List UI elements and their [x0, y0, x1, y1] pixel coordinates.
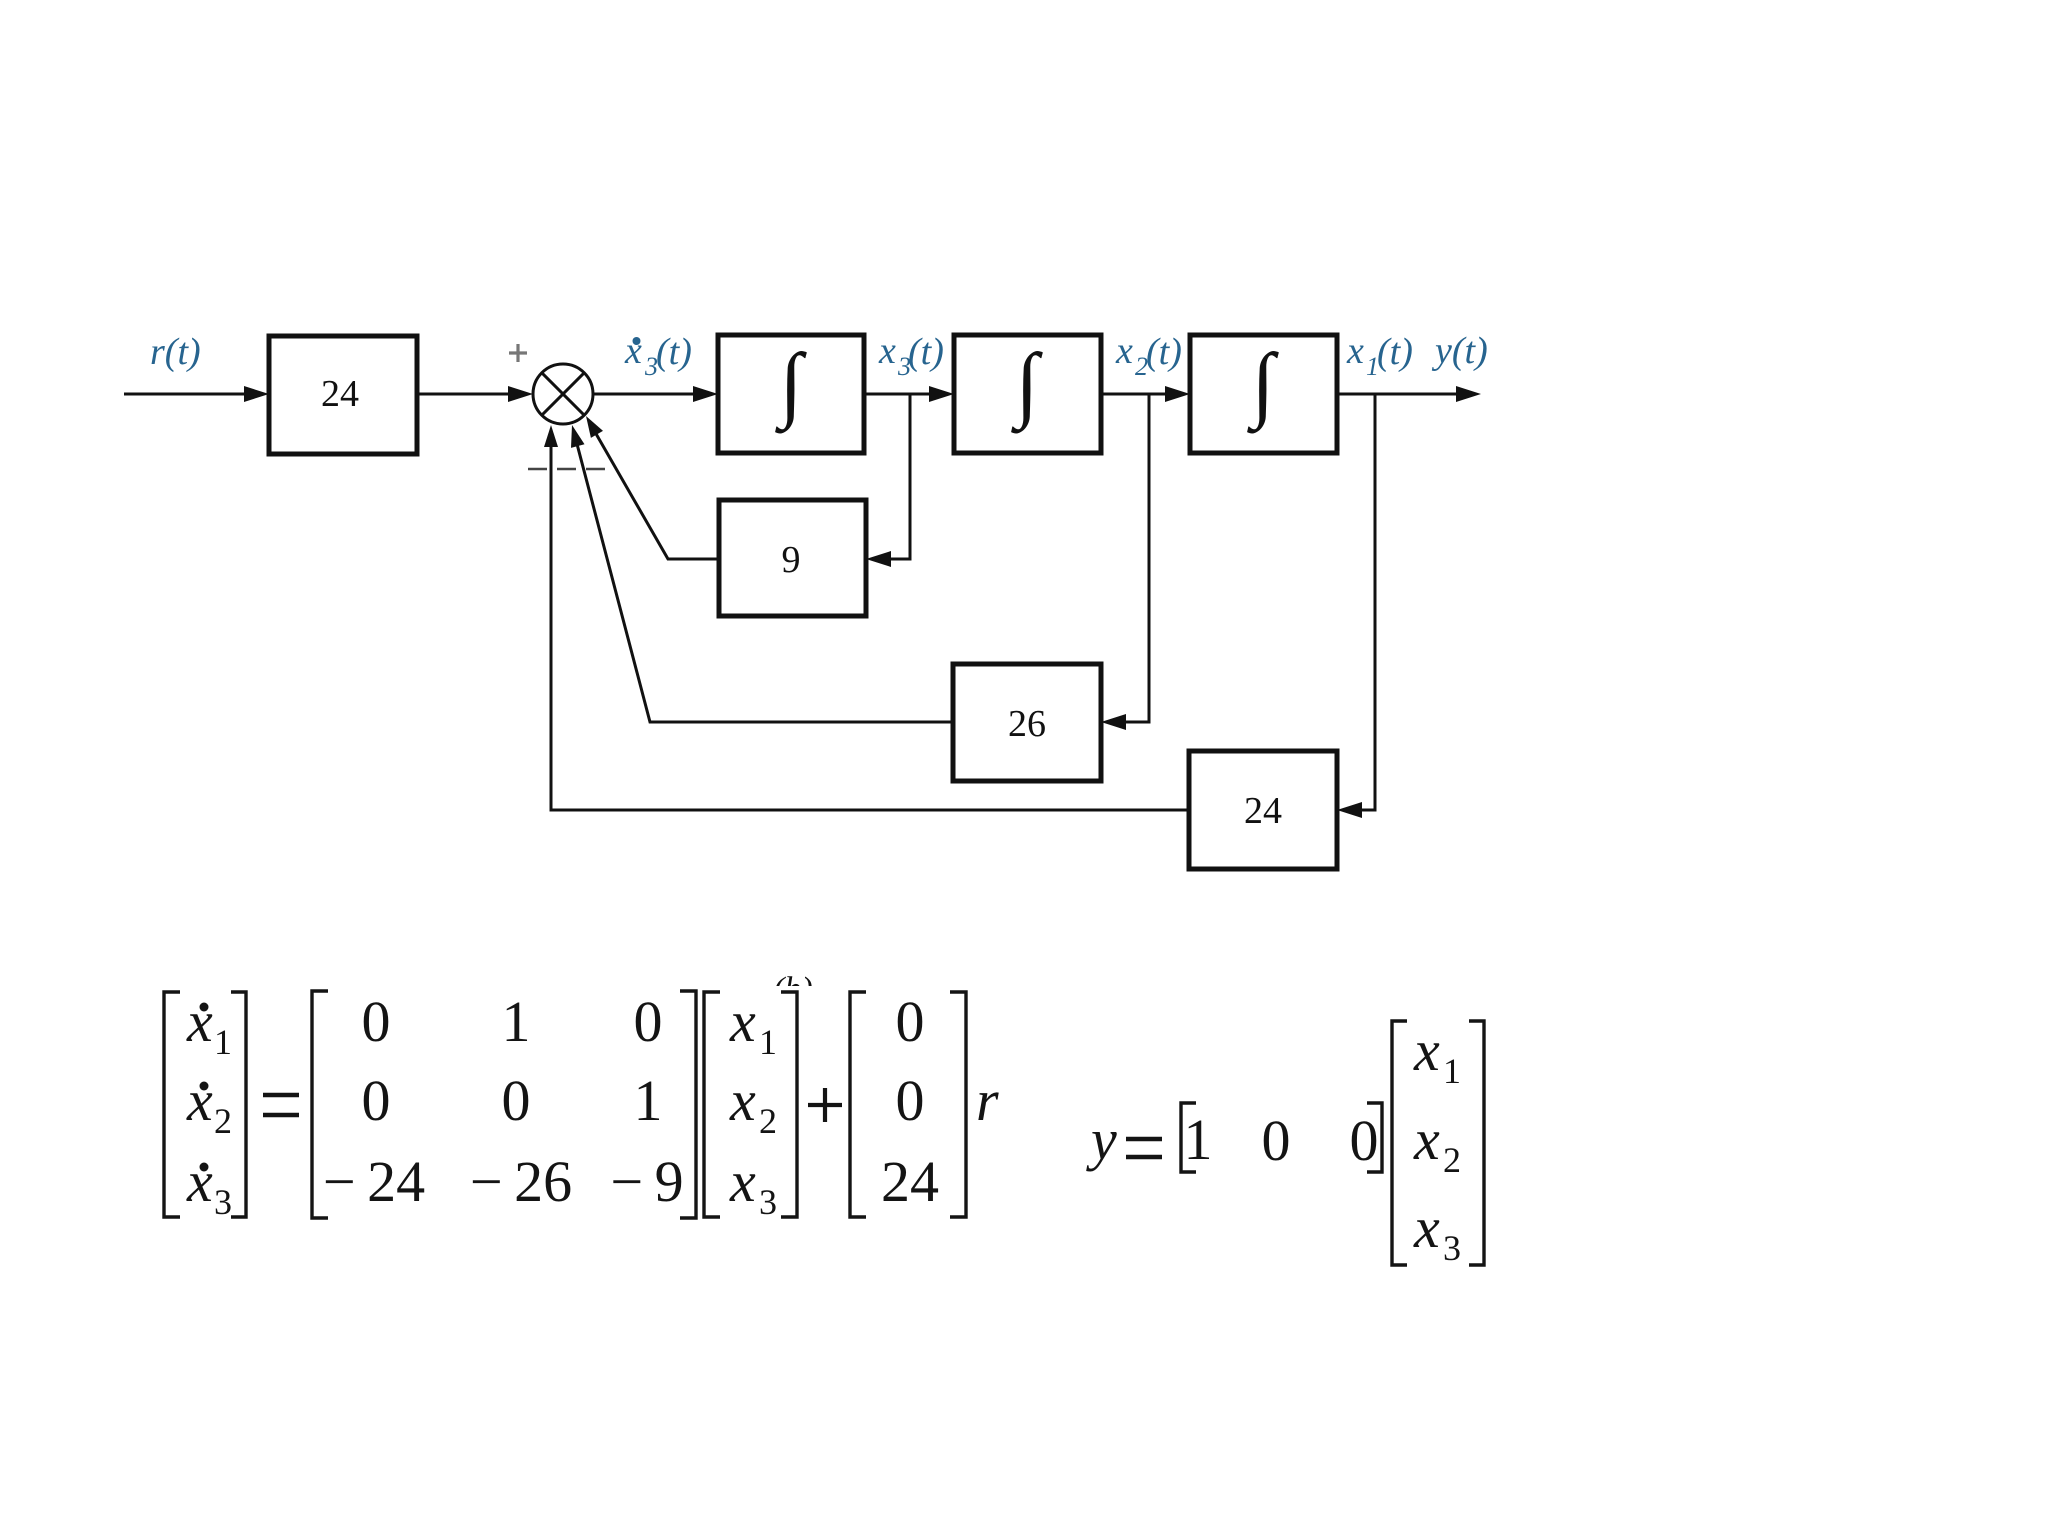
- svg-text:0: 0: [634, 989, 663, 1054]
- feedback block 26: [953, 664, 1101, 781]
- svg-text:24: 24: [881, 1149, 939, 1214]
- output equation y =: [1086, 1107, 1117, 1172]
- integrator block 2: [954, 335, 1101, 453]
- svg-text:x: x: [1413, 1018, 1440, 1083]
- wire integrator1 to integrator2: [864, 393, 931, 396]
- arrowhead into block26: [1101, 714, 1126, 730]
- svg-text:0: 0: [1350, 1108, 1379, 1173]
- svg-text:0: 0: [896, 989, 925, 1054]
- svg-text:24: 24: [1244, 790, 1282, 832]
- svg-text:x: x: [1413, 1107, 1440, 1172]
- wire takeoff x1 down to block24b: [1360, 394, 1375, 810]
- wire integrator2 to integrator3: [1101, 393, 1167, 396]
- svg-text:2: 2: [759, 1101, 777, 1141]
- A matrix entries: [323, 989, 684, 1214]
- svg-text:x: x: [878, 330, 896, 372]
- label x2(t): [1115, 330, 1182, 381]
- wire integrator3 to output y(t): [1337, 393, 1458, 396]
- svg-text:9: 9: [782, 539, 801, 581]
- arrowhead up into summer from block24b: [544, 425, 558, 447]
- wire takeoff x2 down to block26: [1124, 394, 1149, 722]
- arrowhead into block9: [866, 551, 891, 567]
- label x3(t): [878, 330, 944, 381]
- arrowhead into integrator3: [1165, 386, 1190, 402]
- integrator block 3: [1190, 335, 1337, 453]
- plus sign in equation: [808, 1088, 842, 1122]
- plus sign at summer: [509, 344, 527, 362]
- svg-text:(t): (t): [908, 331, 944, 373]
- wire block9 output to summer: [595, 432, 719, 559]
- svg-text:1: 1: [1443, 1051, 1461, 1091]
- svg-text:1: 1: [214, 1022, 232, 1062]
- svg-text:(t): (t): [1377, 331, 1413, 373]
- C row vector brackets: [1181, 1103, 1382, 1172]
- svg-text:2: 2: [1443, 1140, 1461, 1180]
- arrowhead output y(t): [1456, 386, 1481, 402]
- arrowhead into block24b: [1337, 802, 1362, 818]
- svg-text:− 9: − 9: [610, 1149, 683, 1214]
- x vector (output equation) entries: [1413, 1018, 1461, 1268]
- state equation: xdot vector: [164, 992, 246, 1217]
- x state vector entries: [729, 989, 777, 1222]
- svg-text:r(t): r(t): [150, 331, 201, 373]
- wire block24b output to summer: [551, 446, 1189, 810]
- arrowhead into summer left: [508, 386, 533, 402]
- svg-text:0: 0: [502, 1068, 531, 1133]
- svg-text:0: 0: [1262, 1108, 1291, 1173]
- wire summer to integrator1: [593, 393, 695, 396]
- x state vector brackets: [704, 992, 797, 1217]
- label x1(t): [1346, 330, 1413, 381]
- svg-text:− 26: − 26: [470, 1149, 572, 1214]
- svg-text:(t): (t): [656, 331, 692, 373]
- wire gain24 to summer: [417, 393, 510, 396]
- svg-text:1: 1: [759, 1022, 777, 1062]
- svg-text:x: x: [729, 1068, 756, 1133]
- wire block26 output to summer: [577, 444, 953, 722]
- svg-text:− 24: − 24: [323, 1149, 425, 1214]
- feedback block 24b: [1189, 751, 1337, 869]
- x vector (output equation) brackets: [1392, 1021, 1484, 1265]
- svg-text:y(t): y(t): [1431, 330, 1488, 372]
- A matrix brackets: [312, 991, 696, 1218]
- svg-text:2: 2: [214, 1101, 232, 1141]
- svg-text:x: x: [186, 1068, 213, 1133]
- svg-text:(t): (t): [1146, 331, 1182, 373]
- C row vector entries: [1184, 1107, 1379, 1173]
- svg-text:3: 3: [1443, 1228, 1461, 1268]
- svg-text:3: 3: [214, 1182, 232, 1222]
- svg-text:x: x: [1346, 330, 1364, 372]
- svg-text:x: x: [186, 989, 213, 1054]
- svg-text:x: x: [1413, 1195, 1440, 1260]
- svg-text:1: 1: [1184, 1107, 1213, 1172]
- label r(t): [150, 331, 201, 373]
- svg-text:x: x: [729, 989, 756, 1054]
- svg-text:0: 0: [896, 1068, 925, 1133]
- feedback block 9: [719, 500, 866, 616]
- svg-text:3: 3: [759, 1182, 777, 1222]
- label y(t): [1431, 330, 1488, 372]
- label xdot3(t): [624, 330, 692, 381]
- arrowhead into summer from block26: [571, 425, 585, 448]
- svg-text:24: 24: [321, 373, 359, 415]
- svg-text:0: 0: [362, 989, 391, 1054]
- equals sign: [263, 1095, 299, 1115]
- partial figure label (b): [773, 971, 813, 1008]
- svg-text:x: x: [186, 1149, 213, 1214]
- svg-text:x: x: [729, 1149, 756, 1214]
- B vector brackets: [850, 992, 966, 1217]
- arrowhead into integrator2: [929, 386, 954, 402]
- gain block 24: [269, 336, 417, 454]
- wire takeoff x3 down to block9: [889, 394, 910, 559]
- arrowhead into summer from block9: [586, 416, 603, 438]
- minus dashes below summer: [528, 468, 605, 471]
- svg-text:26: 26: [1008, 703, 1046, 745]
- svg-text:1: 1: [634, 1068, 663, 1133]
- wire input r(t): [124, 393, 246, 396]
- B vector entries: [881, 989, 939, 1214]
- svg-text:0: 0: [362, 1068, 391, 1133]
- svg-text:y: y: [1086, 1107, 1117, 1172]
- svg-text:r: r: [976, 1068, 999, 1133]
- svg-text:x: x: [624, 330, 642, 372]
- integrator block 1: [718, 335, 864, 453]
- arrowhead into integrator1: [693, 386, 718, 402]
- arrowhead into gain24: [244, 386, 269, 402]
- svg-text:1: 1: [502, 989, 531, 1054]
- summing junction: [533, 364, 593, 424]
- svg-text:x: x: [1115, 330, 1133, 372]
